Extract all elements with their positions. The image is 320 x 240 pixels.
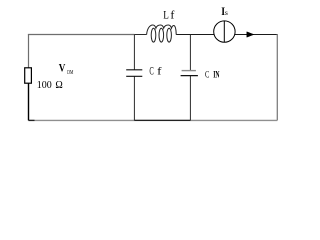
wire bottom dark stub at left corner xyxy=(29,119,35,121)
capacitor CIN plates xyxy=(181,71,198,76)
wire top-right segment (inductor to source) xyxy=(176,34,214,36)
svg-text:f: f xyxy=(157,66,162,78)
svg-text:V: V xyxy=(59,63,66,75)
wire left vertical upper xyxy=(28,35,30,68)
wire left vertical lower xyxy=(28,83,30,120)
svg-text:C: C xyxy=(149,66,153,78)
inductor Lf xyxy=(147,25,177,42)
svg-text:100: 100 xyxy=(37,79,52,91)
svg-text:s: s xyxy=(225,8,228,17)
wire right vertical xyxy=(276,34,278,120)
wire source to right corner xyxy=(235,34,278,36)
capacitor CIN branch wires xyxy=(189,35,191,121)
wire junction to inductor xyxy=(134,34,146,36)
svg-text:C: C xyxy=(205,71,209,81)
capacitor Cf plates xyxy=(126,70,142,77)
svg-text:DM: DM xyxy=(67,70,73,76)
wire top-left horizontal xyxy=(28,34,134,36)
svg-text:L: L xyxy=(163,8,169,22)
wire bottom dark segment between capacitor branches xyxy=(134,119,190,121)
current source Is circle xyxy=(214,21,235,42)
arrow on output wire xyxy=(247,32,254,37)
svg-text:f: f xyxy=(170,8,174,22)
capacitor Cf branch wires xyxy=(133,35,135,121)
svg-text:IN: IN xyxy=(213,70,219,81)
svg-text:Ω: Ω xyxy=(55,79,62,91)
wire bottom horizontal xyxy=(29,119,278,121)
resistor R (100 ohm) xyxy=(25,68,32,83)
current source internal line xyxy=(223,21,225,42)
